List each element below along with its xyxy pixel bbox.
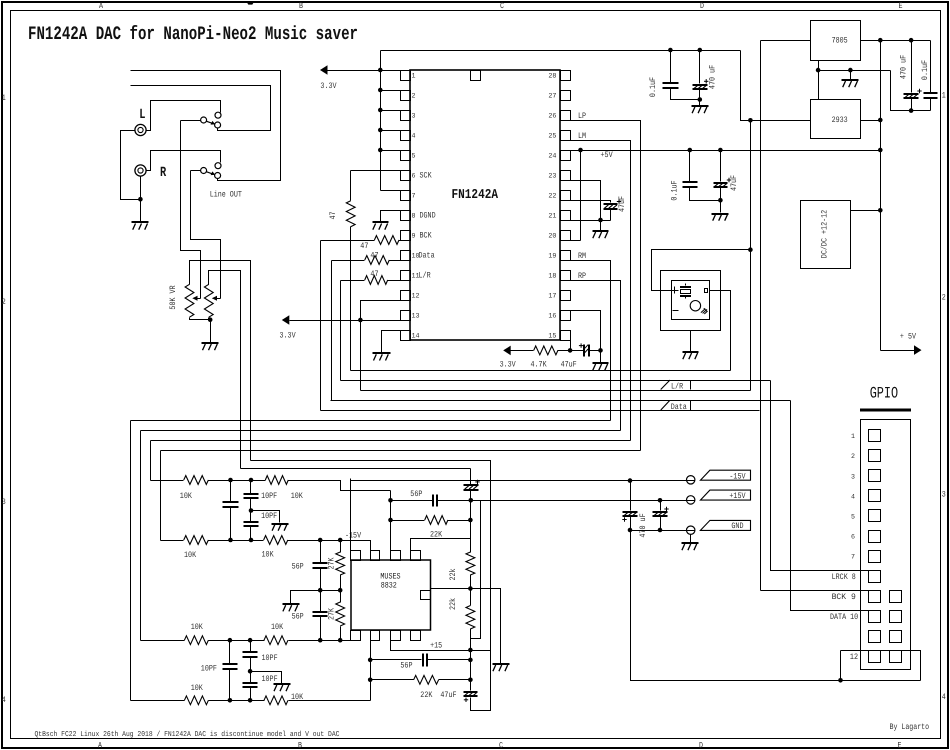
capacitor 47uF output ch1 (polarized) — [470, 469, 472, 485]
MUSES top pin box x=390.8 — [391, 551, 401, 561]
GPIO pin 7 square left — [869, 551, 881, 563]
svg-text:47: 47 — [370, 270, 378, 279]
FN1242A pin 3 box — [401, 111, 411, 121]
junction +5V pin24 — [578, 148, 583, 153]
svg-text:14: 14 — [412, 333, 420, 341]
svg-text:13: 13 — [412, 313, 420, 321]
ground: +5V caps — [712, 214, 729, 221]
wire: 22k mid to ground — [471, 589, 501, 664]
svg-text:2: 2 — [942, 294, 946, 303]
svg-text:12: 12 — [412, 293, 420, 301]
junction pin21 gnd node — [598, 218, 603, 223]
capacitor 10PF C2 — [250, 672, 252, 683]
svg-text:10PF: 10PF — [262, 675, 278, 684]
wire: bus to pin 5 — [381, 150, 401, 152]
junction pin1 bus — [378, 68, 383, 73]
wire: bus to pin 7 — [381, 190, 401, 192]
resistor 47 (BCK) — [374, 236, 399, 245]
wire: osc ground — [690, 331, 692, 352]
svg-text:L/R: L/R — [419, 271, 431, 281]
svg-text:19: 19 — [548, 253, 556, 261]
capacitor 470uF pos rail (polarized) — [660, 501, 662, 511]
svg-text:56P: 56P — [292, 613, 304, 622]
MUSES top pin box x=370.2 — [371, 551, 380, 561]
FN1242A pin 21 box — [561, 211, 571, 221]
junction 56P chain top — [318, 538, 323, 543]
net tag Data — [661, 401, 670, 411]
junction pin4 bus — [378, 128, 383, 133]
MUSES right pin box — [421, 591, 431, 600]
wire: pin15 stub — [570, 341, 572, 351]
FN1242A pin 5 box — [401, 151, 411, 161]
junction 470uF 3.3V — [698, 48, 703, 53]
capacitor 0.1uF (+5V rail) — [689, 151, 691, 183]
ground: pin15 node — [593, 363, 609, 370]
junction 470uF2 bottom — [658, 528, 663, 533]
junction 22K ch2 right — [468, 678, 473, 683]
resistor 10K branch3 a — [184, 636, 208, 645]
ground: VR — [202, 343, 219, 350]
FN1242A pin 25 box — [561, 131, 571, 141]
ground: pin21 — [593, 231, 609, 238]
ground: pin14 — [373, 353, 391, 361]
junction 470uF right — [909, 38, 914, 43]
capacitor 47uF (pin15 node, polarized) — [584, 345, 589, 357]
svg-text:16: 16 — [548, 313, 556, 321]
oscillator circle — [690, 301, 700, 311]
junction +15 node — [468, 648, 473, 653]
junction riser dcdc — [878, 208, 883, 213]
FN1242A pin 23 box — [561, 171, 571, 181]
wire: cap to pin21 line — [610, 209, 612, 221]
svg-text:8832: 8832 — [381, 582, 397, 591]
power arrow 3.3V to pin13 — [282, 315, 290, 325]
FN1242A pin 10 box — [401, 251, 411, 261]
svg-text:47uF: 47uF — [440, 691, 456, 700]
svg-text:L: L — [139, 107, 145, 123]
GPIO pin 10 square left — [869, 611, 881, 623]
wire: BCK vertical down — [320, 241, 322, 411]
wire: gnd return to caps — [891, 71, 931, 111]
wire: node to ground — [600, 351, 602, 363]
FN1242A pin 2 box — [401, 91, 411, 101]
wire: L pole down to VR1 wiper — [181, 121, 201, 299]
VR2 wiper arrow — [217, 298, 221, 300]
svg-text:E: E — [899, 2, 903, 11]
junction 27K mid — [338, 588, 343, 593]
FN1242A pin 27 box — [561, 91, 571, 101]
junction 470uF2 top — [658, 498, 663, 503]
svg-text:-15V: -15V — [729, 472, 745, 481]
svg-text:4: 4 — [942, 693, 946, 702]
svg-text:10K: 10K — [271, 623, 283, 632]
GPIO pin square right row 11 — [890, 631, 902, 643]
resistor 10K branch1 b — [265, 476, 288, 485]
ground: 3.3V caps — [692, 106, 709, 113]
wire: cap mid2 to ground — [251, 672, 282, 684]
junction +5V cap gnd node — [718, 198, 723, 203]
svg-text:DATA 10: DATA 10 — [830, 613, 858, 622]
wire: SCK/osc line y370 — [351, 370, 731, 372]
wire: BCK line to GPIO9 — [761, 590, 869, 592]
svg-text:GND: GND — [731, 522, 743, 531]
wire: cap mid to ground — [251, 511, 280, 523]
junction capA2 top — [228, 638, 233, 643]
ground: 56P mid — [283, 604, 300, 611]
wire: 7805 input from riser — [761, 40, 811, 42]
resistor 22k upper (chain) — [470, 501, 472, 553]
capacitor 56P ch2 — [371, 659, 422, 661]
wire: 56P mid to ground — [291, 591, 341, 604]
wire: GND term to symbol — [690, 535, 692, 543]
svg-text:By Lagarto: By Lagarto — [890, 723, 930, 732]
wire: 3.3V rail drop to 2933 — [741, 51, 751, 121]
junction 56P mid — [318, 588, 323, 593]
svg-text:QtBsch FC22 Linux 26th Aug 201: QtBsch FC22 Linux 26th Aug 2018 / FN1242… — [35, 730, 340, 739]
FN1242A pin 7 box — [401, 191, 411, 201]
wire: 7805 input riser (down to GPIO BCK line) — [760, 41, 762, 591]
resistor 47 (L/R) — [365, 276, 388, 285]
capacitor 56P ch1 — [391, 500, 434, 502]
junction 22K left — [388, 518, 393, 523]
svg-text:20: 20 — [548, 233, 556, 241]
terminal circle GND — [687, 526, 695, 534]
svg-text:0.1uF: 0.1uF — [671, 180, 680, 200]
svg-text:Line OUT: Line OUT — [210, 190, 242, 200]
wire: RP net — [561, 281, 621, 431]
svg-text:+5V: +5V — [601, 151, 613, 160]
junction pin15 node — [568, 348, 573, 353]
capacitor 56P upper — [320, 541, 322, 563]
wire: gnd line down to GPIO12 loop — [631, 531, 921, 681]
FN1242A pin 8 box — [401, 211, 411, 221]
wire: MUSES right pin to 22k node — [431, 588, 471, 590]
junction 470uF1 top — [628, 478, 633, 483]
junction pin3 bus — [378, 108, 383, 113]
FN1242A pin 16 box — [561, 311, 571, 321]
op IC FN1242A body U1 — [410, 70, 560, 340]
switch SW1 upper throw contact — [215, 112, 221, 118]
svg-text:R: R — [160, 165, 167, 181]
svg-text:56P: 56P — [410, 490, 422, 499]
wire: VR bottoms to ground — [190, 318, 211, 320]
svg-text:4: 4 — [412, 133, 416, 141]
wire: Data line y400 — [331, 400, 791, 402]
capacitor 56P lower — [320, 591, 322, 612]
resistor 22k lower (chain) — [466, 606, 475, 630]
wire: RM line y420 — [131, 420, 611, 422]
svg-text:B: B — [298, 742, 302, 750]
svg-text:5: 5 — [412, 153, 416, 161]
FN1242A pin 17 box — [561, 291, 571, 301]
wire: pin 12 net — [361, 301, 401, 391]
svg-text:+15: +15 — [430, 642, 442, 651]
wire: VR1 top to rail x250.6 — [190, 261, 251, 461]
junction 470uF1 bottom — [628, 528, 633, 533]
svg-text:56P: 56P — [292, 563, 304, 572]
svg-text:5: 5 — [851, 514, 855, 522]
svg-text:B: B — [299, 2, 303, 11]
resistor 10K branch4 b — [264, 696, 288, 705]
junction 10PF mid2 — [248, 669, 253, 674]
oscillator hatch mark — [701, 309, 705, 313]
wire: MUSES top2 from branch2 — [370, 541, 372, 551]
wire: 3.3V line to regulator area (y=50) — [381, 50, 741, 52]
FN1242A pin 22 box — [561, 191, 571, 201]
switch SW2 upper throw contact — [215, 163, 221, 169]
MUSES bottom pin box x=350.3 — [351, 631, 361, 641]
FN1242A pin 26 box — [561, 111, 571, 121]
wire: pin12 line y390 — [361, 390, 751, 392]
capacitor 10PF bridge A — [230, 481, 232, 503]
GPIO connector outline — [861, 420, 911, 670]
capacitor 470uF neg rail (polarized) — [630, 481, 632, 511]
svg-text:17: 17 — [548, 293, 556, 301]
switch SW2 pole contact — [201, 168, 207, 174]
ground: 22k mid — [493, 664, 510, 671]
capacitor 10PF C — [250, 511, 252, 523]
junction 10PF mid — [249, 508, 254, 513]
svg-text:FN1242A: FN1242A — [452, 188, 499, 203]
capacitor 47uF output ch2 (polarized) — [470, 680, 472, 691]
wire: MUSES in+ column — [390, 491, 392, 551]
oscillator module inner box — [672, 281, 710, 320]
wire: L jack to switch SW1 upper throw — [147, 101, 221, 131]
junction 7805 out riser — [878, 38, 883, 43]
wire: MUSES top1 to -15V line — [350, 479, 352, 551]
FN1242A pin 28 box — [561, 71, 571, 81]
wire: 7805 gnd — [818, 61, 820, 100]
wire: branch3 to MUSES pin bottom1 — [289, 640, 351, 642]
svg-text:BCK 9: BCK 9 — [832, 593, 856, 602]
FN1242A pin 4 box — [401, 131, 411, 141]
wire: VR2 bottom — [208, 318, 210, 320]
wire: pin 8 DGND to ground — [381, 211, 401, 223]
svg-text:47uF: 47uF — [730, 175, 739, 191]
resistor 27K lower — [336, 602, 345, 626]
svg-text:A: A — [99, 2, 103, 11]
svg-text:27K: 27K — [328, 557, 337, 569]
capacitor 10PF bridge A2 — [229, 641, 231, 665]
oscillator minus mark — [673, 310, 679, 312]
FN1242A top pin box — [471, 71, 481, 81]
svg-text:6: 6 — [851, 534, 855, 542]
junction 27K chain top — [338, 538, 343, 543]
svg-text:3: 3 — [851, 473, 855, 481]
wire: SCK to pin 6 — [351, 170, 401, 172]
wire: 7805 output — [861, 40, 931, 42]
power arrow 3.3V to pin1 bus — [320, 65, 328, 75]
svg-text:2: 2 — [851, 453, 855, 461]
MUSES top pin box x=350.3 — [351, 551, 361, 561]
wire: osc power from 3.3V — [652, 250, 751, 291]
GPIO pin 2 square left — [869, 450, 881, 462]
junction 470uF bottom — [909, 108, 914, 113]
svg-text:FN1242A DAC for NanoPi-Neo2: FN1242A DAC for NanoPi-Neo2 Music saver — [28, 23, 358, 45]
flag GND — [700, 520, 750, 530]
wire: LRCK riser to GPIO8 — [771, 381, 869, 571]
svg-text:GPIO: GPIO — [870, 384, 898, 402]
MUSES top pin box x=410.7 — [411, 551, 421, 561]
ground: branch1 caps — [272, 524, 289, 531]
wire: LP line y450 — [161, 450, 641, 452]
svg-text:28: 28 — [548, 73, 556, 81]
wire: pin 14 to ground — [382, 331, 401, 353]
power arrow 3.3V pin15 net — [503, 346, 511, 356]
svg-text:0.1uF: 0.1uF — [649, 77, 658, 97]
junction gnd sym — [848, 68, 853, 73]
svg-text:E: E — [898, 742, 902, 750]
wire: MUSES top3 from branch1 — [390, 491, 392, 551]
FN1242A pin 12 box — [401, 291, 411, 301]
MUSES bottom pin box x=390.8 — [391, 631, 401, 641]
svg-text:4.7K: 4.7K — [531, 361, 547, 370]
flag +15V — [700, 490, 750, 500]
wire: +5V rail — [561, 150, 881, 152]
wire: branch4 input from RM rail — [131, 700, 185, 702]
svg-text:D: D — [699, 742, 703, 750]
svg-text:7: 7 — [412, 193, 416, 201]
svg-text:22: 22 — [548, 193, 556, 201]
FN1242A pin 11 box — [401, 271, 411, 281]
FN1242A pin 13 box — [401, 311, 411, 321]
junction ch2 56P — [368, 658, 373, 663]
net tag L/R — [661, 380, 670, 390]
potentiometer VR2 50K — [204, 284, 213, 317]
resistor 4.7K — [534, 346, 558, 355]
svg-text:22K: 22K — [420, 691, 432, 700]
svg-text:7: 7 — [851, 554, 855, 562]
wire: branch2 to MUSES in- — [288, 541, 371, 551]
wire: pin20 to +5V riser — [561, 240, 581, 242]
svg-text:10K: 10K — [180, 492, 192, 501]
svg-text:DGND: DGND — [420, 212, 436, 221]
svg-text:10PF: 10PF — [261, 512, 277, 521]
capacitor 47uF (+5V rail, polarized) — [720, 151, 722, 182]
svg-text:2933: 2933 — [832, 116, 848, 125]
svg-text:BCK: BCK — [420, 232, 432, 241]
wire: +15V/output line y500.3 — [471, 500, 695, 502]
RCA jack L — [135, 124, 146, 135]
FN1242A pin 24 box — [561, 151, 571, 161]
svg-text:A: A — [98, 742, 102, 750]
FN1242A pin 14 box — [401, 331, 411, 341]
svg-text:4: 4 — [2, 696, 6, 705]
wire: LP net — [561, 121, 641, 451]
wire: MUSES top4 to 22k chain — [411, 539, 471, 551]
wire: RM rail vertical — [130, 421, 132, 701]
wire: LP drop to branch2 — [160, 451, 162, 541]
wire: +15 line to riser — [471, 650, 491, 652]
svg-text:LRCK 8: LRCK 8 — [832, 573, 856, 582]
svg-text:3: 3 — [942, 491, 946, 500]
svg-text:MUSES: MUSES — [380, 572, 400, 581]
wire: 2933 in from +5V riser — [861, 120, 881, 122]
junction riser 2933 — [878, 118, 883, 123]
wire: branch3 input from RP rail — [141, 640, 185, 642]
resistor 47 (SCK series, vertical) — [346, 201, 355, 227]
wire: LM net — [561, 141, 631, 441]
capacitor 0.1uF (7805 out) — [930, 41, 932, 93]
svg-text:50K VR: 50K VR — [169, 285, 178, 309]
potentiometer VR1 50K — [185, 284, 194, 317]
svg-text:470 uF: 470 uF — [899, 55, 908, 79]
svg-text:+ 5V: + 5V — [900, 333, 916, 342]
svg-text:21: 21 — [548, 213, 556, 221]
junction 27K chain bottom — [338, 638, 343, 643]
MUSES bottom pin box x=410.7 — [411, 631, 421, 641]
svg-text:25: 25 — [548, 133, 556, 141]
FN1242A pin 19 box — [561, 251, 571, 261]
wire: SW1 pole to L-pole rail — [181, 120, 201, 122]
wire: VR1 line y460 to ch2 cap — [251, 461, 491, 711]
FN1242A pin 18 box — [561, 271, 571, 281]
wire: MUSES bottom3 to +15 — [391, 641, 471, 651]
GPIO pin square right row 10 — [890, 611, 902, 623]
svg-text:RM: RM — [578, 252, 586, 261]
svg-text:3.3V: 3.3V — [500, 361, 516, 370]
GPIO pin 1 square left — [869, 430, 881, 442]
FN1242A pin 1 box — [401, 71, 411, 81]
svg-text:1: 1 — [942, 92, 946, 101]
svg-text:D: D — [700, 2, 704, 11]
GPIO title underline — [860, 409, 911, 412]
svg-text:10K: 10K — [191, 684, 203, 693]
wire: branch1 input — [151, 480, 184, 482]
wire: SCK down to R 47 — [350, 171, 352, 201]
wire: RP rail vertical — [140, 431, 142, 641]
svg-text:4: 4 — [851, 493, 855, 501]
junction 0.1uF 3.3V — [668, 48, 673, 53]
wire: dcdc to riser — [851, 210, 881, 212]
junction 56P left — [388, 498, 393, 503]
resistor 22K ch2 — [371, 679, 414, 681]
switch SW1 wiper arrow — [206, 121, 212, 123]
terminal circle +15V — [687, 496, 695, 504]
wire: R jack to switch SW2 upper throw — [147, 151, 221, 171]
wire: branch2 input — [161, 540, 184, 542]
wire: bus to pin 1 — [381, 70, 401, 72]
svg-text:470 uF: 470 uF — [639, 513, 648, 537]
junction capB2 top — [248, 638, 253, 643]
RCA jack R — [135, 165, 146, 176]
wire: R jack down to ground — [140, 177, 142, 223]
capacitor 10PF B — [250, 481, 252, 494]
svg-text:23: 23 — [548, 173, 556, 181]
svg-text:C: C — [500, 2, 504, 11]
wire: 3.3V riser down — [750, 121, 752, 391]
svg-text:3: 3 — [412, 113, 416, 121]
junction 47uF right — [598, 348, 603, 353]
svg-text:47uF: 47uF — [618, 196, 627, 212]
wire: SW2 pole to R-pole rail — [191, 170, 201, 172]
switch SW2 lower throw contact — [215, 173, 221, 179]
junction capA2 bottom — [228, 698, 233, 703]
wire: Data vertical down — [331, 261, 333, 401]
svg-text:2: 2 — [412, 93, 416, 101]
wire: L jack ground path — [121, 131, 141, 200]
svg-text:7805: 7805 — [832, 37, 848, 46]
capacitor 470uF (3.3V rail, polarized) — [699, 51, 701, 84]
FN1242A pin 9 box — [401, 231, 411, 241]
svg-text:15: 15 — [548, 333, 556, 341]
wire: GND terminal line — [631, 530, 695, 532]
svg-text:Data: Data — [419, 252, 435, 261]
junction 56P chain bottom — [318, 638, 323, 643]
wire: bus to pin 3 — [381, 110, 401, 112]
ground: branch3 caps — [274, 684, 291, 691]
svg-text:47: 47 — [370, 252, 378, 261]
